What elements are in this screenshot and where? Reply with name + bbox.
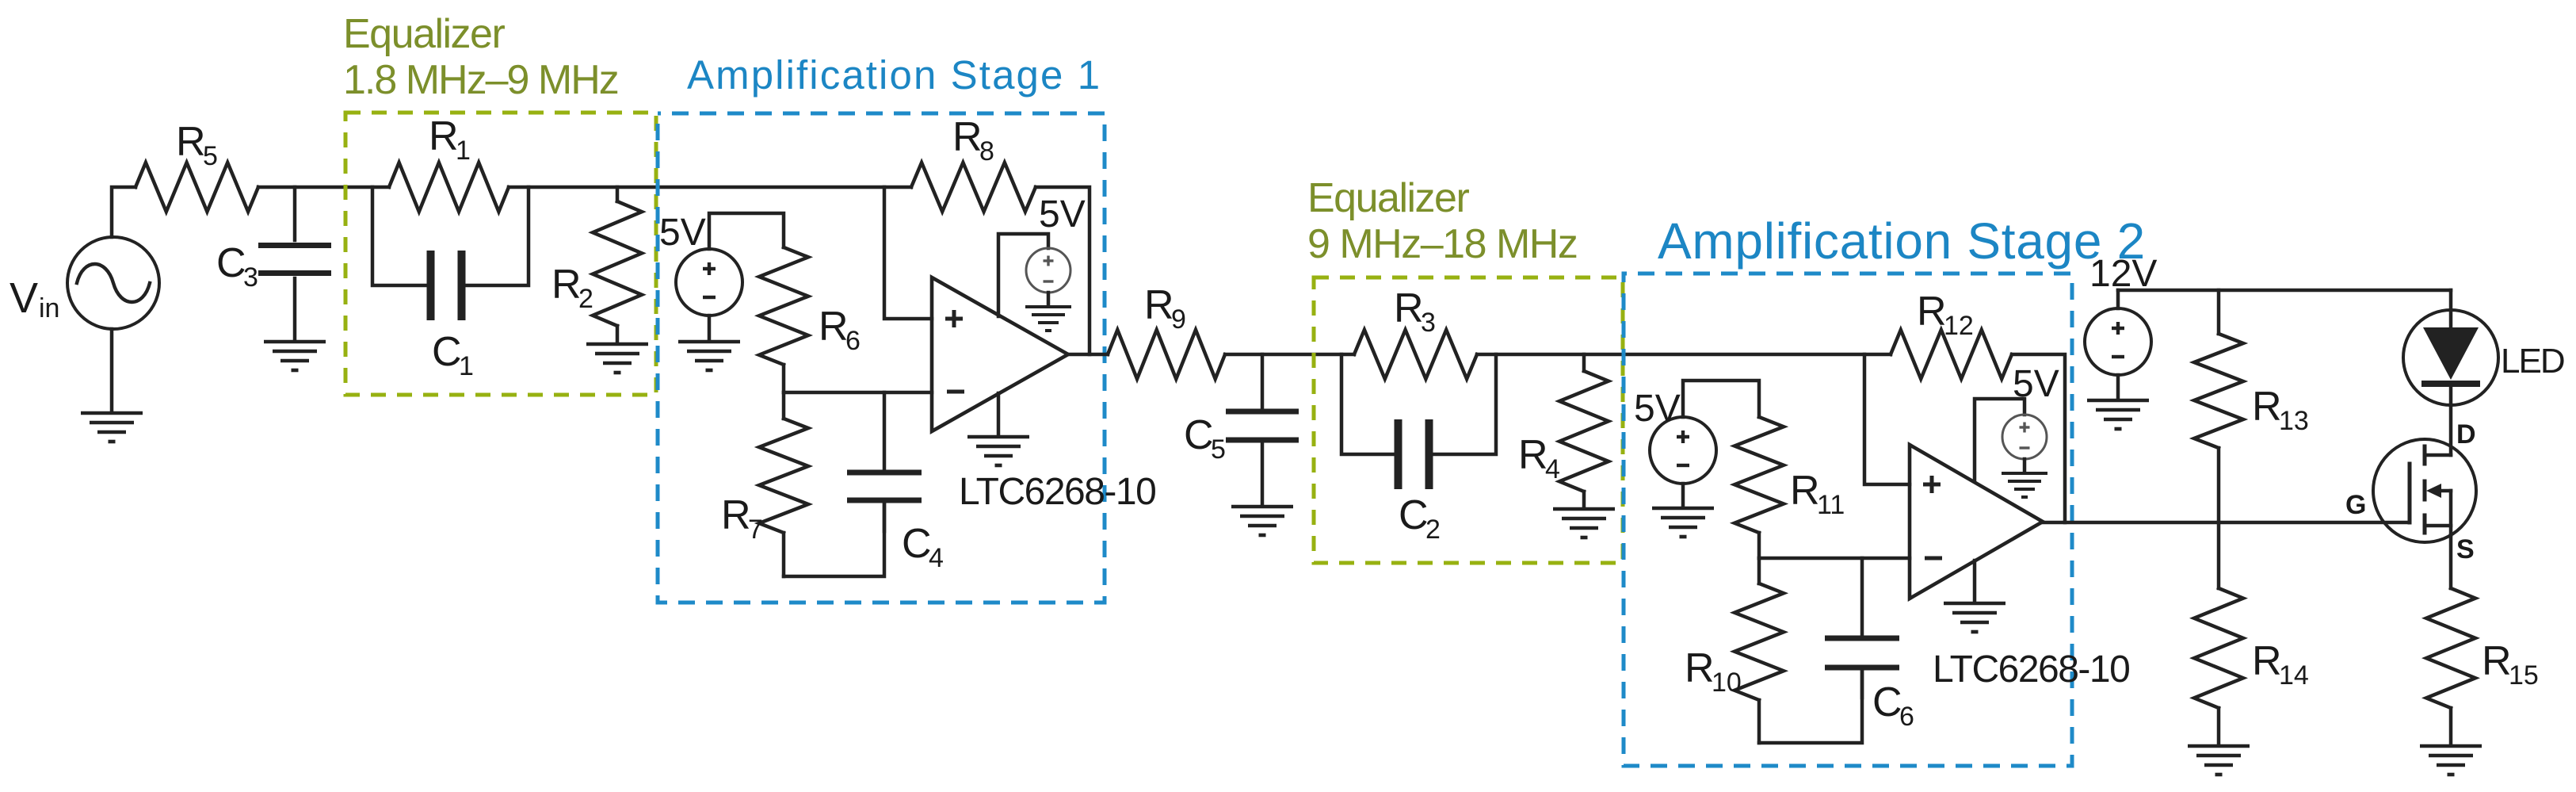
resistor R8 [911,163,1036,212]
svg-text:12: 12 [1944,311,1974,341]
svg-text:13: 13 [2279,406,2309,436]
wire rail R5 to R1 [258,186,389,189]
wire rail R3 to R12 [1477,353,1891,357]
ground under C3 [264,340,326,344]
svg-text:R: R [2252,384,2282,430]
svg-text:R: R [2482,638,2512,684]
ground under C5 [1231,505,1293,509]
svg-text:7: 7 [748,515,763,545]
wire C1 loop left [372,187,427,285]
resistor R15 [2426,588,2475,708]
wire Vin-bottom [110,329,114,411]
ground under 5V op-amp1 [1025,305,1071,308]
wire U2 ground stem [1973,561,1977,602]
wire 12V rail [2118,289,2451,293]
svg-text:1: 1 [456,136,471,166]
resistor R7 [782,392,786,419]
svg-text:9 MHz–18 MHz: 9 MHz–18 MHz [1307,221,1577,267]
ground under 5V stage2 [1652,507,1714,511]
svg-text:3: 3 [1421,308,1436,338]
op-amp U1 [932,277,1068,431]
resistor R10 [1757,558,1761,583]
resistor R12 [1891,330,2012,379]
svg-text:V: V [10,274,38,322]
svg-text:5V: 5V [2013,363,2059,405]
svg-text:1: 1 [459,351,474,381]
svg-text:3: 3 [243,262,258,293]
svg-text:6: 6 [845,326,861,356]
ground under 12V [2087,399,2149,403]
resistor R14 [2217,522,2221,588]
wire R12 to output (feedback) [2012,354,2065,522]
wire R10 to C6 bottom [1759,671,1862,743]
ground under Vin [81,411,143,415]
svg-text:C: C [902,521,932,567]
capacitor C1 [427,251,435,320]
svg-text:4: 4 [929,543,944,573]
svg-text:R: R [1394,285,1424,331]
wire U1 ground stem [997,393,1001,435]
svg-text:11: 11 [1817,490,1845,520]
resistor R4 [1582,354,1586,371]
svg-text:R: R [1144,282,1174,328]
source 5V op-amp1 [1026,248,1070,293]
svg-text:in: in [39,293,59,323]
wire source to R15 [2449,535,2453,588]
wire 12V stem [2116,290,2120,308]
capacitor C3 [293,187,297,240]
LED [2403,310,2498,405]
svg-text:R: R [2252,638,2282,684]
svg-text:4: 4 [1545,454,1560,484]
svg-text:R: R [429,113,459,159]
svg-text:5V: 5V [1634,388,1681,430]
svg-text:Equalizer: Equalizer [1307,175,1469,221]
source 12V [2085,308,2151,375]
wire C2 loop left [1341,354,1395,454]
wire R9 to R3 [1225,353,1354,357]
wire U1 output [1068,353,1108,357]
ground under 5V stage1 [678,340,740,344]
svg-text:C: C [1184,412,1214,458]
svg-text:Amplification Stage 2: Amplification Stage 2 [1658,212,2146,270]
wire rail to op-amp2 + input [1864,354,1910,484]
ground under R14 [2188,744,2250,748]
svg-text:R: R [952,114,983,160]
svg-text:Equalizer: Equalizer [343,11,505,57]
svg-text:G: G [2345,490,2366,520]
svg-text:D: D [2456,419,2476,450]
amplification box 1 (dashed) [658,113,1105,603]
ground under R4 [1553,507,1615,511]
svg-text:5: 5 [203,141,218,171]
svg-text:6: 6 [1899,702,1914,732]
svg-text:5V: 5V [1039,193,1086,235]
wire 5V op-amp1 ground stem [1047,293,1051,305]
ground under R15 [2420,744,2482,748]
wire 5V to R11 [1683,381,1759,417]
svg-text:2: 2 [578,284,593,314]
svg-text:5: 5 [1211,434,1226,465]
svg-text:C: C [1399,492,1429,538]
wire LED to drain [2449,405,2453,455]
equalizer box 1 (dashed) [345,113,656,395]
resistor R2 [616,187,620,201]
svg-text:R: R [1518,432,1548,478]
svg-text:2: 2 [1425,515,1441,545]
wire supply hook U2 [1975,399,2025,481]
op-amp U2 [1910,445,2043,599]
svg-text:8: 8 [979,136,994,166]
svg-text:R: R [1917,289,1947,335]
ground under U2 [1944,602,2005,606]
resistor R3 [1354,330,1477,379]
capacitor C5 [1261,354,1265,408]
wire - input 2 [1759,557,1910,561]
wire 5V op-amp2 ground stem [2023,459,2027,472]
svg-text:LTC6268-10: LTC6268-10 [959,471,1155,513]
wire 5V to R6 [709,213,784,249]
resistor R13 [2217,290,2221,334]
wire Vin-top to R5 [112,187,135,237]
wire C2 loop right [1433,354,1496,454]
wire 5V stage2 ground stem [1681,484,1685,507]
capacitor C2 [1395,419,1402,489]
wire R8 to output (feedback) [1036,187,1090,354]
svg-text:LED: LED [2501,342,2564,381]
svg-text:R: R [176,119,206,165]
source 5V stage1 [676,249,742,316]
svg-text:R: R [1790,468,1820,514]
svg-text:5V: 5V [659,212,706,254]
svg-text:R: R [819,304,849,350]
svg-text:15: 15 [2509,660,2539,691]
resistor R6 [759,247,808,365]
svg-text:10: 10 [1712,668,1742,698]
resistor R9 [1108,330,1225,379]
svg-text:LTC6268-10: LTC6268-10 [1933,649,2129,691]
capacitor C6 [1860,558,1864,635]
resistor R11 [1735,417,1784,533]
wire R7 to C4 bottom [784,502,884,576]
svg-text:C: C [432,329,462,375]
svg-text:R: R [1685,645,1715,691]
svg-text:9: 9 [1171,304,1186,335]
svg-text:R: R [721,492,751,538]
wire rail R1 to R8 [509,186,911,189]
resistor R5 [135,163,258,212]
wire supply hook U1 [998,234,1048,316]
source Vin [67,237,159,329]
equalizer box 2 (dashed) [1314,277,1623,563]
svg-text:1.8 MHz–9 MHz: 1.8 MHz–9 MHz [343,57,618,103]
wire rail to op-amp + input [884,187,932,319]
ground under 5V op-amp2 [2002,472,2047,475]
svg-text:14: 14 [2279,660,2309,691]
amplification box 2 (dashed) [1624,274,2072,766]
ground under U1 [967,435,1029,439]
source 5V op-amp2 [2002,415,2047,459]
source 5V stage2 [1650,417,1716,484]
svg-text:Amplification Stage 1: Amplification Stage 1 [687,52,1101,98]
svg-text:C: C [216,240,246,286]
ground under R2 [586,342,648,346]
svg-text:R: R [551,262,582,308]
svg-text:C: C [1872,679,1902,725]
capacitor C4 [883,392,887,469]
wire U2 output / gate line [2043,521,2410,525]
wire 12V ground stem [2116,375,2120,399]
transistor Q1 (MOSFET) [2373,439,2476,542]
svg-text:S: S [2456,534,2475,564]
wire C1 loop right [465,187,529,285]
wire - input [784,391,932,395]
wire 5V ground stem [708,316,712,340]
resistor R1 [389,163,509,212]
